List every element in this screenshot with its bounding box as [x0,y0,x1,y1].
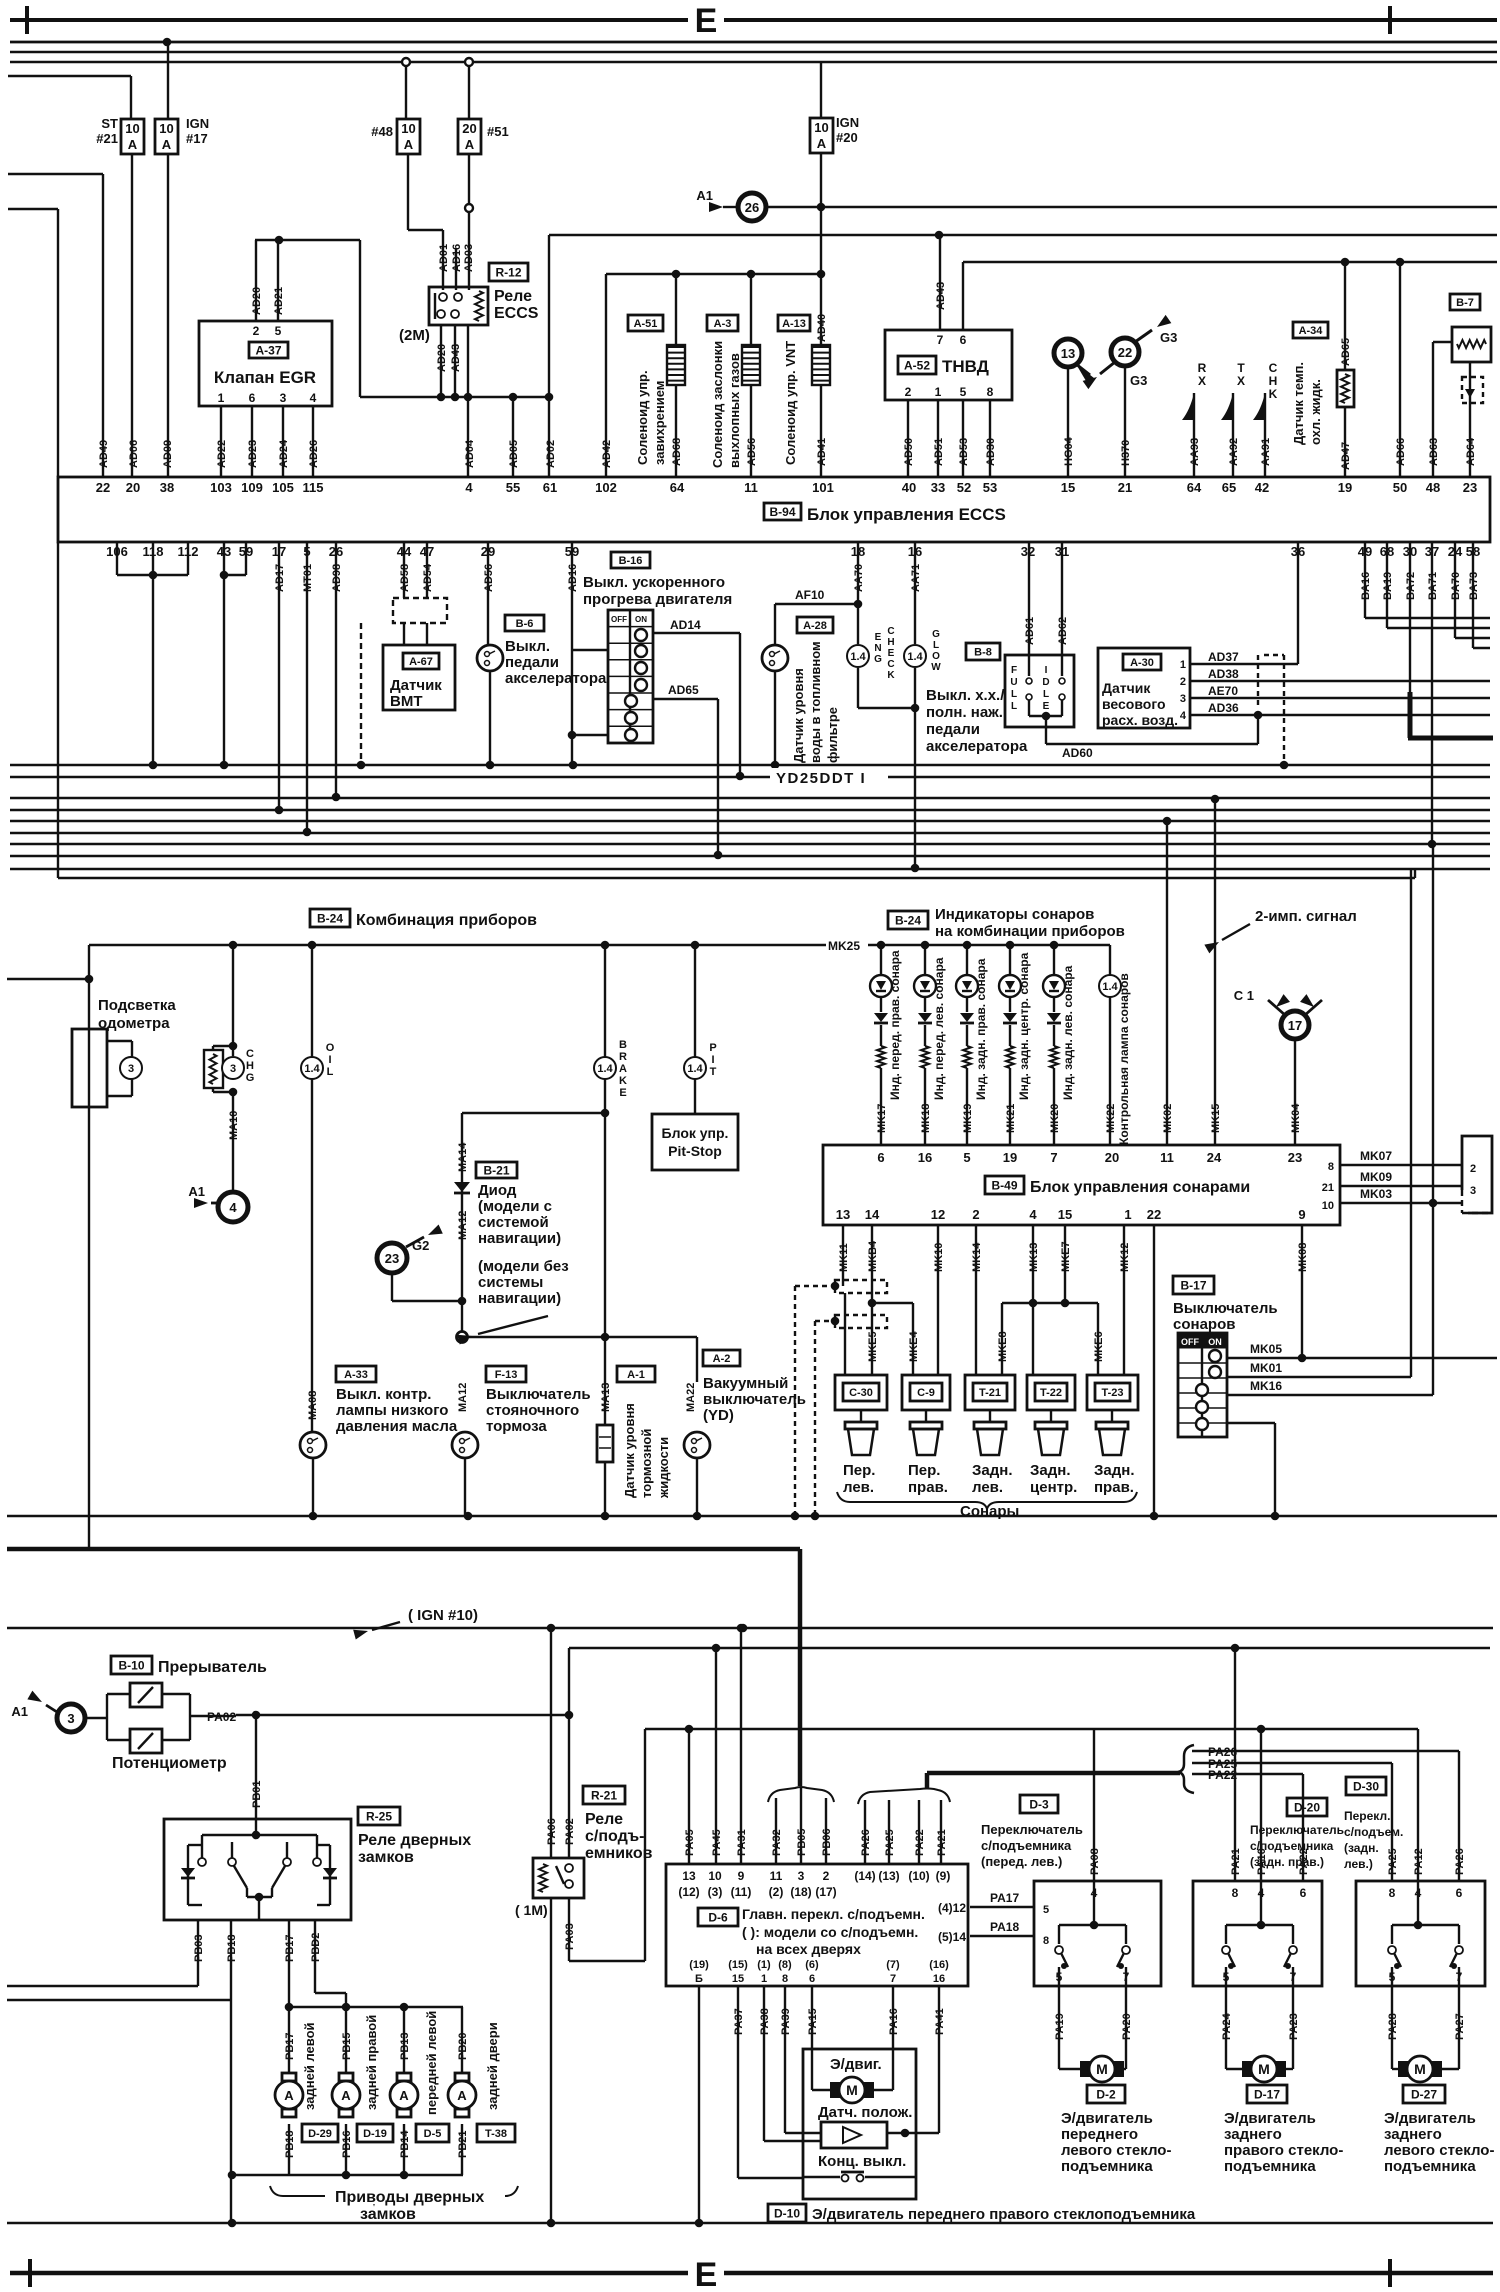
svg-text:53: 53 [983,480,997,495]
svg-text:Датчик уровня: Датчик уровня [622,1403,637,1498]
svg-text:BA16: BA16 [1360,572,1372,600]
svg-text:AD68: AD68 [671,438,683,466]
svg-text:H: H [246,1060,254,1072]
svg-text:P: P [709,1042,716,1054]
svg-text:61: 61 [543,480,557,495]
svg-text:A1: A1 [188,1184,205,1199]
svg-text:115: 115 [303,480,324,495]
svg-text:AD49: AD49 [98,440,110,468]
svg-text:PA37: PA37 [733,2008,745,2035]
svg-text:A1: A1 [11,1704,28,1719]
svg-text:Задн.: Задн. [1094,1462,1135,1479]
svg-text:4: 4 [1029,1207,1037,1222]
svg-text:AD62: AD62 [1057,617,1069,645]
svg-text:Соленоид упр.: Соленоид упр. [635,370,650,465]
svg-text:Задн.: Задн. [1030,1462,1071,1479]
svg-text:(перед. лев.): (перед. лев.) [981,1854,1062,1869]
svg-text:B: B [619,1039,627,1051]
svg-text:AD54: AD54 [422,563,434,592]
svg-text:B-8: B-8 [974,646,992,658]
svg-text:тормоза: тормоза [486,1418,547,1435]
svg-text:A: A [817,136,827,151]
svg-text:PA26: PA26 [1454,1848,1466,1875]
svg-text:AD53: AD53 [958,438,970,466]
svg-text:Э/двигатель: Э/двигатель [1061,2110,1153,2127]
svg-text:D-27: D-27 [1411,2087,1437,2101]
svg-text:AD21: AD21 [273,287,285,315]
svg-text:расх. возд.: расх. возд. [1102,712,1178,728]
svg-text:MA13: MA13 [600,1383,612,1412]
svg-text:полн. наж.: полн. наж. [926,704,1003,721]
svg-text:выхлопных газов: выхлопных газов [727,353,742,468]
svg-text:A1: A1 [696,188,713,203]
svg-text:PA06: PA06 [546,1818,558,1845]
svg-text:PA17: PA17 [990,1891,1019,1905]
svg-text:A-51: A-51 [634,318,658,330]
svg-text:AD17: AD17 [274,564,286,592]
svg-text:M: M [1414,2061,1426,2077]
svg-text:12: 12 [931,1207,945,1222]
svg-text:Сонары: Сонары [960,1503,1019,1520]
svg-text:40: 40 [902,480,916,495]
svg-text:PA26: PA26 [860,1829,872,1856]
svg-text:AD42: AD42 [601,440,613,468]
svg-text:акселератора: акселератора [505,670,607,687]
svg-text:стояночного: стояночного [486,1402,579,1419]
svg-text:AD64: AD64 [1465,437,1477,466]
svg-text:20: 20 [1105,1150,1119,1165]
svg-text:(7): (7) [886,1959,900,1971]
svg-text:1: 1 [1180,659,1186,671]
svg-text:L: L [933,640,939,651]
svg-text:B-94: B-94 [769,505,795,519]
svg-text:Пер.: Пер. [908,1462,940,1479]
svg-text:6: 6 [877,1150,884,1165]
svg-text:5: 5 [275,324,282,338]
svg-text:Э/двигатель: Э/двигатель [1384,2110,1476,2127]
svg-text:задней двери: задней двери [485,2022,500,2110]
svg-text:14: 14 [865,1207,880,1222]
svg-text:7: 7 [1123,1970,1130,1984]
svg-text:B-6: B-6 [516,618,534,630]
svg-text:PB15: PB15 [341,2032,353,2060]
svg-text:AD41: AD41 [816,438,828,466]
svg-text:K: K [887,670,895,681]
svg-text:64: 64 [1187,480,1202,495]
svg-text:MK18: MK18 [920,1104,932,1133]
svg-text:4: 4 [1180,710,1187,722]
svg-text:11: 11 [770,1869,783,1883]
svg-text:#51: #51 [487,124,509,139]
svg-text:Диод: Диод [478,1182,517,1199]
svg-text:2-имп. сигнал: 2-имп. сигнал [1255,908,1357,925]
svg-text:замков: замков [358,1849,414,1866]
svg-text:10: 10 [159,121,173,136]
svg-text:AD06: AD06 [128,440,140,468]
svg-text:(16): (16) [929,1959,949,1971]
svg-text:13: 13 [1061,346,1075,361]
svg-text:PA45: PA45 [711,1829,723,1856]
svg-text:A: A [619,1063,627,1075]
svg-text:передней левой: передней левой [424,2011,439,2115]
svg-text:13: 13 [836,1207,850,1222]
svg-text:R-25: R-25 [366,1809,392,1823]
svg-text:(19): (19) [689,1959,709,1971]
svg-text:11: 11 [1160,1150,1174,1165]
svg-text:(2): (2) [769,1885,784,1899]
svg-text:E: E [888,648,895,659]
svg-text:правого стекло-: правого стекло- [1224,2142,1343,2159]
svg-text:( ): модели со с/подъемн.: ( ): модели со с/подъемн. [742,1924,918,1940]
svg-text:Э/двиг.: Э/двиг. [830,2056,882,2073]
svg-text:5: 5 [963,1150,970,1165]
svg-text:(задн.: (задн. [1344,1841,1379,1855]
svg-text:H370: H370 [1120,440,1132,466]
svg-text:(3): (3) [708,1885,723,1899]
svg-text:16: 16 [933,1973,945,1985]
svg-text:AD98: AD98 [331,564,343,592]
svg-text:A-67: A-67 [409,656,433,668]
svg-text:A-34: A-34 [1299,325,1324,337]
svg-text:MK11: MK11 [838,1243,850,1272]
svg-text:Реле: Реле [585,1811,623,1828]
svg-text:Главн. перекл. с/подъемн.: Главн. перекл. с/подъемн. [742,1906,925,1922]
svg-text:системы: системы [478,1274,543,1291]
svg-text:PA05: PA05 [684,1829,696,1856]
svg-text:PA27: PA27 [1454,2013,1466,2040]
svg-text:MKE6: MKE6 [1093,1331,1105,1362]
svg-text:T-38: T-38 [485,2128,507,2140]
svg-text:N: N [874,643,881,654]
svg-text:8: 8 [1328,1161,1334,1173]
svg-text:жидкости: жидкости [656,1437,671,1499]
svg-text:PA38: PA38 [759,2008,771,2035]
svg-text:B-10: B-10 [118,1658,144,1672]
svg-text:103: 103 [210,480,232,495]
svg-text:PA23: PA23 [1288,2013,1300,2040]
svg-text:Индикаторы сонаров: Индикаторы сонаров [935,906,1094,923]
svg-text:AF10: AF10 [795,588,825,602]
svg-text:K: K [619,1075,627,1087]
svg-text:PA16: PA16 [888,2008,900,2035]
svg-text:( 1М): ( 1М) [515,1902,548,1918]
svg-text:#17: #17 [186,131,208,146]
svg-text:A: A [128,137,138,152]
svg-text:Датчик: Датчик [1102,680,1151,696]
svg-text:20: 20 [126,480,140,495]
svg-text:19: 19 [1338,480,1352,495]
svg-text:IGN: IGN [836,115,859,130]
svg-text:L: L [1011,701,1017,712]
svg-text:лев.: лев. [843,1479,874,1496]
svg-text:AA71: AA71 [910,564,922,592]
svg-text:OFF: OFF [611,615,627,624]
svg-text:15: 15 [1058,1207,1072,1222]
svg-text:MK17: MK17 [876,1104,888,1133]
svg-text:A: A [399,2088,409,2103]
svg-text:( IGN #10): ( IGN #10) [408,1607,478,1624]
svg-text:T-22: T-22 [1040,1387,1062,1399]
svg-text:AA91: AA91 [1260,438,1272,466]
svg-text:AD22: AD22 [216,440,228,468]
svg-text:2: 2 [823,1869,830,1883]
svg-text:16: 16 [918,1150,932,1165]
svg-text:Блок управления ECCS: Блок управления ECCS [807,505,1006,524]
svg-text:Э/двигатель: Э/двигатель [1224,2110,1316,2127]
svg-text:AD24: AD24 [278,439,290,468]
svg-text:IGN: IGN [186,116,209,131]
svg-text:MA10: MA10 [228,1111,240,1140]
svg-text:фильтре: фильтре [825,707,840,763]
svg-text:Датчик уровня: Датчик уровня [791,668,806,763]
svg-text:Прерыватель: Прерыватель [158,1659,267,1676]
svg-text:I: I [711,1054,714,1066]
svg-text:M: M [1096,2061,1108,2077]
svg-text:PB05: PB05 [796,1828,808,1856]
svg-text:2: 2 [253,324,260,338]
svg-text:Выключатель: Выключатель [1173,1300,1278,1317]
svg-text:лев.): лев.) [1344,1857,1373,1871]
svg-text:PA21: PA21 [1230,1848,1242,1875]
svg-text:10: 10 [1322,1200,1334,1212]
svg-text:2: 2 [1470,1163,1476,1175]
svg-text:PA31: PA31 [736,1829,748,1856]
svg-text:D-2: D-2 [1096,2087,1116,2101]
svg-text:MK20: MK20 [1049,1104,1061,1133]
svg-text:38: 38 [160,480,174,495]
svg-text:Датч. полож.: Датч. полож. [818,2104,912,2121]
svg-text:9: 9 [738,1869,745,1883]
svg-text:A-52: A-52 [904,358,930,372]
svg-text:PA08: PA08 [1089,1848,1101,1875]
svg-text:5: 5 [1043,1904,1049,1916]
svg-text:MK08: MK08 [1297,1243,1309,1272]
svg-text:1.4: 1.4 [597,1063,613,1075]
svg-text:AD16: AD16 [451,244,463,272]
svg-text:(модели с: (модели с [478,1198,552,1215]
svg-text:9: 9 [1298,1207,1305,1222]
svg-text:AD43: AD43 [935,282,947,310]
svg-text:YD25DDT I: YD25DDT I [776,770,866,787]
svg-text:(11): (11) [731,1885,752,1899]
svg-text:с/подъемника: с/подъемника [981,1838,1072,1853]
svg-text:D-19: D-19 [363,2128,387,2140]
svg-text:PA22: PA22 [914,1829,926,1856]
svg-text:Конц. выкл.: Конц. выкл. [818,2153,906,2170]
svg-text:D-30: D-30 [1353,1779,1379,1793]
svg-text:AD58: AD58 [399,564,411,592]
svg-text:подъемника: подъемника [1384,2158,1476,2175]
svg-text:A-30: A-30 [1130,657,1154,669]
svg-text:AD38: AD38 [1208,667,1239,681]
svg-text:PB17: PB17 [284,1934,296,1962]
svg-text:PB18: PB18 [226,1934,238,1962]
svg-text:PA25: PA25 [1387,1848,1399,1875]
svg-text:Подсветка: Подсветка [98,997,176,1014]
svg-text:MA22: MA22 [685,1383,697,1412]
svg-text:прав.: прав. [908,1479,948,1496]
svg-text:Переключатель: Переключатель [981,1822,1083,1837]
svg-text:G: G [932,629,940,640]
svg-text:MK22: MK22 [1105,1104,1117,1133]
svg-text:B-49: B-49 [991,1178,1017,1192]
svg-text:T: T [1237,361,1245,375]
svg-text:7: 7 [890,1973,896,1985]
svg-text:E: E [875,632,882,643]
svg-text:PB14: PB14 [399,2130,411,2158]
svg-text:ВМТ: ВМТ [390,693,423,710]
svg-text:M: M [846,2082,858,2098]
svg-text:(18): (18) [790,1885,811,1899]
svg-text:охл. жидк.: охл. жидк. [1308,379,1323,445]
svg-text:левого стекло-: левого стекло- [1384,2142,1494,2159]
svg-text:R-21: R-21 [591,1788,617,1802]
svg-text:T-23: T-23 [1101,1387,1123,1399]
svg-text:MKE4: MKE4 [908,1331,920,1362]
svg-text:H: H [1269,374,1278,388]
svg-text:T: T [710,1066,717,1078]
svg-text:BA72: BA72 [1405,572,1417,600]
svg-text:A-28: A-28 [803,620,827,632]
svg-text:6: 6 [249,391,256,405]
svg-text:MKB4: MKB4 [867,1240,879,1272]
svg-text:(10): (10) [908,1869,929,1883]
svg-text:AD63: AD63 [1428,438,1440,466]
svg-text:E: E [619,1087,626,1099]
svg-text:10: 10 [125,121,139,136]
svg-text:L: L [1043,689,1049,700]
svg-text:MK13: MK13 [1028,1243,1040,1272]
svg-text:52: 52 [957,480,971,495]
svg-text:(13): (13) [878,1869,899,1883]
svg-text:7: 7 [1456,1970,1463,1984]
svg-text:5: 5 [1389,1970,1396,1984]
svg-text:15: 15 [1061,480,1075,495]
svg-text:(YD): (YD) [703,1407,734,1424]
svg-text:MA12: MA12 [457,1211,469,1240]
svg-text:22: 22 [1118,345,1132,360]
svg-text:подъемника: подъемника [1224,2158,1316,2175]
svg-text:MA12: MA12 [457,1383,469,1412]
svg-text:A: A [284,2088,294,2103]
svg-text:AD26: AD26 [308,440,320,468]
svg-text:MK05: MK05 [1250,1342,1282,1356]
svg-text:F-13: F-13 [495,1369,518,1381]
svg-text:G3: G3 [1160,330,1177,345]
svg-text:OFF: OFF [1181,1337,1199,1347]
svg-text:с/подъемника: с/подъемника [1250,1839,1334,1853]
svg-text:Э/двигатель переднего правого: Э/двигатель переднего правого стеклоподъ… [812,2206,1196,2223]
svg-text:64: 64 [670,480,685,495]
svg-text:L: L [327,1066,334,1078]
svg-text:подъемника: подъемника [1061,2158,1153,2175]
svg-text:1: 1 [935,385,942,399]
svg-text:MK09: MK09 [1360,1170,1392,1184]
svg-text:AA93: AA93 [1189,438,1201,466]
svg-text:MK12: MK12 [1119,1243,1131,1272]
svg-text:завихрением: завихрением [652,381,667,465]
svg-text:3: 3 [67,1711,74,1726]
svg-text:6: 6 [1300,1886,1307,1900]
svg-text:MK01: MK01 [1250,1361,1282,1375]
svg-text:MK25: MK25 [828,939,860,953]
svg-text:A: A [465,137,475,152]
svg-text:(5)14: (5)14 [938,1930,966,1944]
svg-text:10: 10 [814,120,828,135]
svg-text:ECCS: ECCS [494,305,539,322]
svg-text:20: 20 [462,121,476,136]
svg-text:AD60: AD60 [1062,746,1093,760]
svg-text:PA32: PA32 [771,1829,783,1856]
svg-text:F: F [1011,665,1017,676]
svg-text:#21: #21 [96,131,118,146]
svg-text:PA03: PA03 [564,1923,576,1950]
svg-text:1: 1 [218,391,225,405]
svg-text:ТНВД: ТНВД [942,357,989,376]
svg-text:13: 13 [682,1869,696,1883]
svg-text:Вакуумный: Вакуумный [703,1375,788,1392]
svg-text:A: A [457,2088,467,2103]
svg-text:(8): (8) [778,1959,792,1971]
svg-text:HG04: HG04 [1063,436,1075,466]
svg-text:X: X [1237,374,1245,388]
svg-text:лев.: лев. [972,1479,1003,1496]
svg-text:PB18: PB18 [284,2130,296,2158]
svg-text:MK21: MK21 [1005,1104,1017,1133]
svg-text:D-6: D-6 [708,1910,728,1924]
svg-text:5: 5 [1223,1970,1230,1984]
svg-text:сонаров: сонаров [1173,1316,1235,1333]
svg-text:B-17: B-17 [1180,1278,1206,1292]
svg-text:Блок упр.: Блок упр. [662,1125,729,1141]
svg-text:AE70: AE70 [1208,684,1238,698]
svg-text:(модели без: (модели без [478,1258,569,1275]
svg-text:тормозной: тормозной [639,1429,654,1498]
svg-text:17: 17 [1288,1018,1302,1033]
svg-text:7: 7 [1290,1970,1297,1984]
svg-text:PB20: PB20 [457,2032,469,2060]
svg-text:AD36: AD36 [1208,701,1239,715]
svg-text:7: 7 [937,333,944,347]
svg-text:E: E [695,2,718,40]
svg-text:Датчик: Датчик [390,677,442,694]
svg-text:AD16: AD16 [567,564,579,592]
svg-text:22: 22 [1147,1207,1161,1222]
svg-text:A-1: A-1 [627,1369,645,1381]
svg-text:5: 5 [1056,1970,1063,1984]
svg-text:(2М): (2М) [399,327,430,344]
svg-text:Выкл.: Выкл. [505,638,550,655]
svg-text:Пер.: Пер. [843,1462,875,1479]
svg-text:AD65: AD65 [1340,338,1352,366]
svg-text:MK14: MK14 [971,1242,983,1272]
svg-text:MKE5: MKE5 [867,1331,879,1362]
svg-text:4: 4 [229,1200,237,1215]
svg-text:AD47: AD47 [1340,442,1352,470]
svg-text:#20: #20 [836,130,858,145]
svg-text:B-16: B-16 [619,555,643,567]
svg-text:C: C [887,659,894,670]
svg-text:весового: весового [1102,696,1166,712]
svg-text:2: 2 [972,1207,979,1222]
svg-text:M: M [1258,2061,1270,2077]
svg-text:AD23: AD23 [247,440,259,468]
svg-text:8: 8 [782,1973,788,1985]
svg-text:MK16: MK16 [1250,1379,1282,1393]
svg-text:Потенциометр: Потенциометр [112,1755,227,1772]
svg-text:3: 3 [280,391,287,405]
svg-text:Pit-Stop: Pit-Stop [668,1143,722,1159]
